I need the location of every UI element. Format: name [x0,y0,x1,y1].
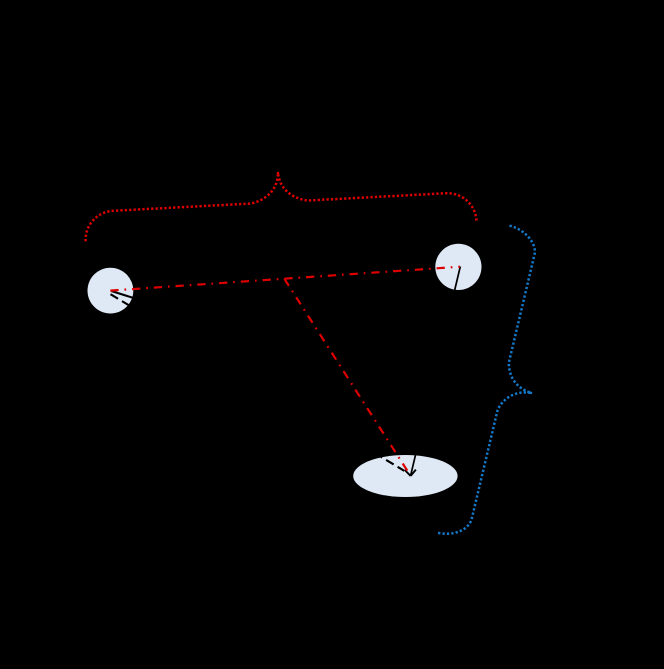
black dashed line left-circle to ellipse [111,294,405,471]
blue brace apex dot [529,391,532,394]
black solid line right circle to ellipse point [411,267,461,476]
ellipse body [353,455,457,497]
blue dotted curly brace (right, vertical) [437,226,569,547]
red brace apex dot [277,172,280,175]
red dash-dot line midpoint to ellipse [284,279,407,471]
mass circle right [435,244,481,290]
black solid arrow shaft in left circle [111,291,140,300]
black arrowhead right barb [411,470,416,476]
black arrowhead left barb [405,470,411,476]
mass circle left [88,268,134,314]
red dash-dot line between circle centers [110,267,460,291]
red dotted curly brace (top, horizontal) [82,161,476,241]
